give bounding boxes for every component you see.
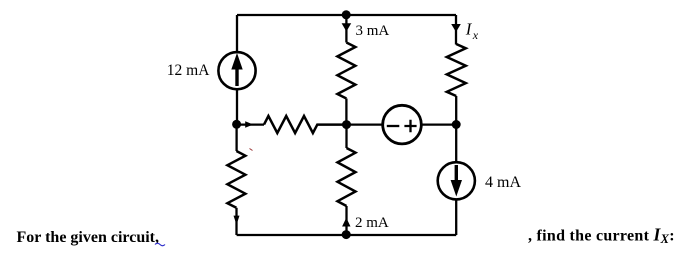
spellcheck squiggle (155, 243, 165, 246)
svg-text:, find the current IX:: , find the current IX: (528, 225, 675, 247)
wire voltage source to node C (422, 123, 457, 125)
wire top rail (237, 14, 456, 16)
resistor R5 (left vertical) (227, 151, 245, 208)
resistor R3 (middle lower vertical) (338, 148, 356, 206)
wire left branch upper (236, 15, 238, 53)
resistor R4 (right vertical) (447, 44, 466, 96)
wire node B to voltage source (347, 123, 384, 125)
svg-text:4 mA: 4 mA (485, 174, 521, 191)
arrow current direction right (245, 121, 253, 127)
wire right branch upper with Ix arrow (455, 15, 457, 45)
current source I1 12 mA (218, 52, 255, 89)
wire left branch mid (236, 89, 238, 125)
node C (right middle junction) (452, 120, 461, 129)
wire node B down to resistor R3 (345, 125, 347, 148)
wire resistor R2 to node B (345, 99, 347, 126)
node B (center junction) (342, 120, 351, 129)
resistor R2 (middle upper vertical) (337, 43, 355, 99)
wire resistor R4 to node C (455, 96, 457, 125)
arrow left branch down (234, 216, 240, 225)
svg-text:2 mA: 2 mA (355, 215, 389, 231)
node D (top middle junction) (342, 10, 351, 19)
voltage source V1 (- +) (383, 105, 422, 144)
resistor R1 (horizontal) (264, 116, 347, 133)
arrow Ix down (451, 24, 461, 32)
svg-text:I: I (465, 20, 473, 39)
wire middle branch upper with 3 mA arrow (345, 15, 347, 43)
current source I2 4 mA (438, 162, 475, 199)
wire left branch to resistor R5 (235, 124, 237, 151)
wire right branch lower (455, 200, 457, 236)
node E (bottom middle junction) (342, 230, 351, 239)
svg-text:x: x (472, 28, 479, 42)
wire resistor R3 to node E with 2 mA up arrow (345, 206, 347, 235)
svg-text:3 mA: 3 mA (356, 23, 390, 39)
wire bottom rail (237, 234, 457, 236)
svg-text:For the given circuit,: For the given circuit, (17, 229, 160, 246)
wire resistor R5 to bottom left corner with arrow (235, 208, 237, 235)
wire node C to current source I2 (455, 125, 457, 163)
arrow 3 mA down (342, 23, 352, 31)
arrow 2 mA up (342, 218, 350, 227)
wire middle horizontal with arrow (237, 123, 264, 125)
stray red tick mark (250, 149, 253, 151)
node A (left middle junction) (232, 120, 241, 129)
svg-text:12 mA: 12 mA (167, 62, 210, 79)
